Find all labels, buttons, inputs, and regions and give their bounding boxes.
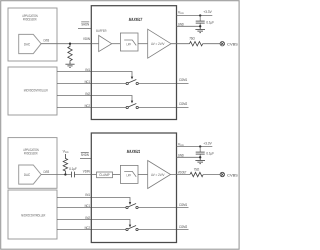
wire GND pin (bottom) [177, 156, 201, 158]
svg-text:LPF: LPF [127, 174, 132, 178]
svg-text:VDIN: VDIN [83, 37, 90, 41]
svg-text:0.1μF: 0.1μF [206, 152, 214, 156]
svg-text:GND: GND [178, 153, 184, 157]
resistor R2 75 ohm (top output) [189, 37, 203, 46]
wire IN1 control (top) [57, 72, 132, 77]
DAC block (bottom) [19, 165, 41, 184]
arrowhead IN1 switch control [131, 77, 133, 80]
wire SHDN stub (top) [78, 28, 91, 30]
junction node on DAC wire [69, 43, 71, 45]
switch SW1 (top) [126, 80, 138, 85]
svg-text:MICROCONTROLLER: MICROCONTROLLER [21, 214, 45, 218]
wire COM1 (bottom) [138, 207, 188, 209]
wire DAC output to VDIN pin, net CVBS [41, 43, 91, 45]
svg-text:CVBS: CVBS [43, 170, 49, 174]
capacitor C1 0.1uF (top) [196, 16, 215, 27]
microcontroller box (top) [8, 67, 57, 115]
op-amp chip U1 MAX9517 box [91, 6, 176, 120]
node VDD junction (top) [199, 14, 201, 16]
wire COM2 (top) [138, 107, 188, 109]
wire C2 to VDIN pin (bottom) [74, 174, 91, 176]
capacitor C3 0.1uF (bottom) [196, 147, 215, 158]
svg-text:CLAMP: CLAMP [99, 173, 110, 177]
svg-text:VDD: VDD [178, 143, 184, 148]
svg-text:BUFFER: BUFFER [96, 29, 107, 33]
wire R4 to CVBS jack (bottom) [203, 174, 220, 176]
wire VDIN pin to buffer (top) [91, 43, 98, 45]
wire buffer to LPF (top) [112, 43, 121, 45]
wire VDIN pin to clamp (bottom) [91, 174, 96, 176]
svg-text:DAC: DAC [24, 173, 31, 177]
DAC block (top) [19, 34, 41, 53]
switch SW2 (top) [126, 104, 138, 109]
svg-text:VDD: VDD [63, 149, 69, 154]
svg-text:PROCESSOR: PROCESSOR [23, 18, 37, 22]
capacitor C2 0.1uF series coupling (bottom) [69, 167, 77, 178]
wire COM1 (top) [138, 83, 188, 85]
wire LPF to output amp (top) [138, 43, 148, 45]
application processor box (bottom) [8, 138, 57, 189]
svg-text:COM1: COM1 [179, 203, 187, 207]
svg-text:CVBS: CVBS [227, 42, 238, 46]
output amplifier AV=2V/V (bottom) [148, 161, 171, 189]
arrowhead IN1 switch control (bottom) [129, 202, 131, 205]
svg-text:VDD: VDD [178, 11, 184, 16]
wire SHDN stub (bottom) [80, 158, 91, 160]
svg-text:75Ω: 75Ω [189, 37, 195, 41]
wire R2 to CVBS jack (top) [203, 43, 220, 45]
svg-text:0.1μF: 0.1μF [206, 21, 214, 25]
svg-text:IN1: IN1 [85, 193, 90, 197]
junction node pull-up (bottom) [64, 173, 66, 175]
wire LPF to output amp (bottom) [138, 174, 148, 176]
ground (bottom right, under C3) [195, 157, 205, 163]
wire NC2 (top) [57, 107, 126, 109]
application processor box (top) [8, 8, 57, 61]
LPF block (top) [120, 33, 138, 51]
wire NC1 (top) [57, 83, 126, 85]
wire amp output to VOUT pin (top) [171, 43, 190, 45]
ground (below R1) [65, 61, 74, 67]
svg-text:PROCESSOR: PROCESSOR [24, 152, 38, 156]
wire NC2 (bottom) [57, 229, 126, 231]
node GND junction (top) [199, 25, 201, 27]
wire VDD pin (bottom) [177, 146, 213, 148]
ground (top right, under C1) [195, 26, 205, 32]
node VDD junction (bottom) [199, 145, 201, 147]
CVBS output jack (bottom) [220, 172, 224, 176]
svg-text:MAX9517: MAX9517 [129, 17, 143, 22]
svg-text:GND: GND [178, 22, 184, 26]
output amplifier AV=2V/V (top) [148, 29, 171, 58]
svg-text:LPF: LPF [127, 42, 132, 46]
svg-text:+3.3V: +3.3V [203, 10, 212, 14]
svg-text:SHDN: SHDN [81, 22, 89, 26]
wire IN1 control (bottom) [57, 198, 130, 203]
node GND junction (bottom) [199, 156, 201, 158]
svg-text:75Ω: 75Ω [194, 168, 200, 172]
outer border frame [1, 1, 239, 250]
svg-text:MICROCONTROLLER: MICROCONTROLLER [24, 88, 48, 92]
svg-text:IN2: IN2 [85, 92, 90, 96]
pin label SHDN (top, with overline) [81, 22, 89, 27]
svg-text:IN2: IN2 [85, 216, 90, 220]
wire amp output to VIDOUT pin (bottom) [171, 174, 191, 176]
resistor R3 pull-up to VDD (bottom) [63, 149, 69, 174]
svg-text:VDIN: VDIN [83, 170, 90, 174]
svg-text:NC1: NC1 [85, 204, 90, 208]
resistor R4 75 ohm (bottom output) [190, 168, 203, 177]
svg-text:VIDOUT: VIDOUT [178, 171, 187, 175]
switch SW4 (bottom) [126, 226, 138, 231]
wire VDD pin (top) [177, 15, 213, 17]
svg-text:CVBS: CVBS [43, 38, 49, 42]
svg-text:SHDN: SHDN [81, 153, 89, 157]
svg-text:COM1: COM1 [179, 78, 187, 82]
arrowhead IN2 switch control [131, 101, 133, 104]
wire DAC output, net CVBS (bottom) [41, 174, 71, 176]
svg-text:0.1μF: 0.1μF [69, 167, 77, 171]
wire GND pin (top) [177, 25, 201, 27]
op-amp chip U2 MAX9521 box [91, 133, 176, 243]
svg-text:NC2: NC2 [85, 104, 90, 108]
svg-text:NC1: NC1 [85, 80, 90, 84]
pin label SHDN (bottom, with overline) [81, 152, 89, 157]
wire IN2 control (top) [57, 96, 132, 101]
wire COM2 (bottom) [138, 229, 188, 231]
svg-text:IN1: IN1 [85, 68, 90, 72]
buffer amplifier (top) [96, 29, 112, 52]
svg-text:CVBS: CVBS [227, 173, 238, 177]
wire IN2 control (bottom) [57, 220, 130, 225]
wire clamp to LPF (bottom) [113, 174, 121, 176]
switch SW3 (bottom) [126, 204, 138, 209]
resistor R1 (DAC load to ground) [68, 44, 72, 62]
svg-text:+3.3V: +3.3V [203, 141, 212, 145]
CVBS output jack (top) [220, 42, 224, 46]
CLAMP block (bottom) [97, 172, 113, 178]
arrowhead IN2 switch control (bottom) [129, 225, 131, 228]
svg-text:COM2: COM2 [179, 102, 187, 106]
svg-text:MAX9521: MAX9521 [127, 149, 141, 154]
LPF block (bottom) [120, 165, 138, 183]
svg-text:COM2: COM2 [179, 225, 187, 229]
svg-text:AV = 2V/V: AV = 2V/V [151, 42, 165, 46]
svg-text:NC2: NC2 [85, 226, 90, 230]
svg-text:DAC: DAC [24, 42, 31, 46]
svg-text:AV = 2V/V: AV = 2V/V [151, 173, 165, 177]
wire NC1 (bottom) [57, 207, 126, 209]
microcontroller box (bottom) [8, 190, 57, 239]
